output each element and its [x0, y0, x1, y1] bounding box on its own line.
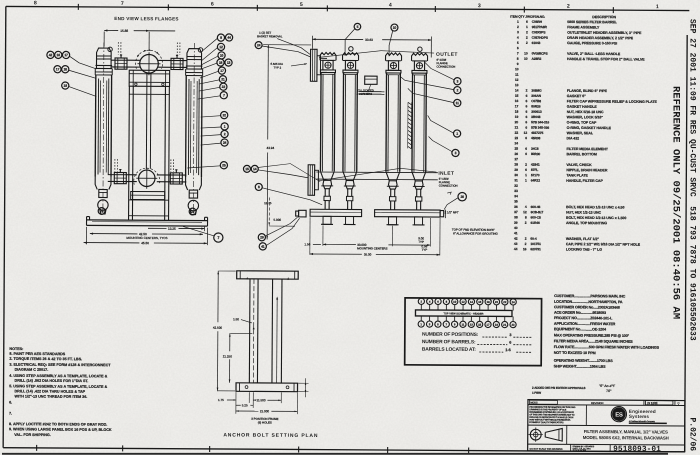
- svg-text:TOP VIEW SCHEMATIC - HEADER: TOP VIEW SCHEMATIC - HEADER: [443, 312, 483, 315]
- dim 30.000 MOUNTING CENTERS: [323, 243, 356, 245]
- side barrel 384.0 drain stem: [390, 189, 392, 197]
- svg-text:TYP: TYP: [418, 240, 424, 244]
- svg-text:CONNECTION: CONNECTION: [436, 65, 455, 69]
- svg-text:3: 3: [478, 3, 481, 9]
- svg-text:SHIP WEIGHT...............1564: SHIP WEIGHT...............1564 LBS: [554, 364, 606, 368]
- svg-text:7: 7: [517, 51, 519, 55]
- svg-text:30: 30: [514, 173, 518, 177]
- svg-text:23: 23: [515, 136, 519, 140]
- svg-text:8: 8: [525, 215, 527, 219]
- barrel x=193.2 flange neck: [186, 71, 203, 73]
- svg-text:NUMBER OF BARRELS:: NUMBER OF BARRELS:: [422, 339, 476, 345]
- drain header right bar: [375, 210, 441, 217]
- barrel x=102.8 flange neck: [95, 71, 112, 73]
- svg-text:17: 17: [56, 67, 60, 71]
- svg-text:4: 4: [525, 205, 527, 209]
- frame columns: [128, 86, 131, 220]
- side barrel 384.0 valve body: [388, 61, 398, 71]
- svg-text:10: 10: [393, 26, 397, 30]
- drain header left bar: [310, 209, 362, 216]
- sheet border frame: [6, 6, 689, 10]
- corner bracket item: [365, 76, 377, 84]
- svg-text:MOUNTING CENTERS: MOUNTING CENTERS: [357, 246, 387, 250]
- svg-text:6: 6: [211, 1, 214, 7]
- side barrel 341.0 valve body: [345, 60, 355, 70]
- svg-text:ANGLE, TOP MOUNTING: ANGLE, TOP MOUNTING: [566, 221, 607, 225]
- small mark near balloon 26: [447, 192, 451, 195]
- svg-text:HANDLE & TRAVEL STOP FOR 2" BA: HANDLE & TRAVEL STOP FOR 2" BALL VALVE: [567, 57, 645, 61]
- leader 41 to stub: [266, 218, 299, 246]
- side barrel 341.0 shell: [342, 73, 345, 172]
- leader 2.5 NPT: [443, 212, 445, 214]
- svg-text:7.: 7.: [9, 412, 12, 416]
- svg-text:20: 20: [515, 120, 519, 124]
- svg-text:19: 19: [515, 115, 519, 119]
- svg-text:4927275: 4927275: [531, 131, 543, 135]
- svg-text:2: 2: [526, 89, 528, 93]
- svg-text:BARRELS LOCATED AT:: BARRELS LOCATED AT:: [422, 347, 476, 353]
- balloon 3 inlet: [452, 149, 459, 156]
- svg-text:60-4: 60-4: [530, 237, 536, 241]
- svg-text:25: 25: [222, 163, 226, 167]
- svg-text:2 ADDED 345 PSI EDITION APPR: 2 ADDED 345 PSI EDITION APPROVALS: [532, 386, 586, 390]
- svg-text:NOT TO EXCEED 10 PPM: NOT TO EXCEED 10 PPM: [554, 351, 596, 355]
- svg-text:620731: 620731: [530, 247, 541, 251]
- svg-text:LOCKING TAB - 7" LG: LOCKING TAB - 7" LG: [566, 247, 602, 251]
- side barrel 318.5 valve body: [323, 60, 333, 70]
- svg-text:3. ELECTRICAL REQ: SEE FORM #: 3. ELECTRICAL REQ: SEE FORM #128 & INTER…: [9, 363, 111, 368]
- leader balloon 10: [389, 31, 393, 57]
- svg-text:6: 6: [526, 99, 528, 103]
- svg-text:17: 17: [486, 323, 490, 327]
- svg-text:4: 4: [517, 36, 519, 40]
- company logo ES circle: [612, 407, 626, 421]
- svg-text:300613: 300613: [531, 110, 542, 114]
- dim 21.250 vertical: [229, 333, 231, 351]
- svg-text:6: 6: [525, 136, 527, 140]
- side barrel 384.0 bottom valve: [388, 181, 397, 189]
- projection symbol cell: [566, 425, 568, 444]
- svg-text:CUSTOMER..................PARS: CUSTOMER..................PARSONS MAIN, …: [554, 294, 626, 298]
- barrel front at x=102.8 cap: [96, 48, 111, 68]
- side barrel 384.0 cap profile: [386, 53, 402, 61]
- svg-text:16: 16: [515, 99, 519, 103]
- dimension 42.50 MOUNTING CENTERS: [90, 233, 138, 235]
- svg-text:24: 24: [512, 300, 516, 304]
- svg-text:OPERATING WEIGHT.........1700: OPERATING WEIGHT.........1700 LBS: [554, 359, 614, 363]
- svg-text:CAP, PIPE 2 1/2" W/1 9/16 DIA: CAP, PIPE 2 1/2" W/1 9/16 DIA 1/2" NPT H…: [566, 242, 641, 246]
- balloon 26 drain: [458, 192, 466, 200]
- svg-text:12: 12: [524, 131, 528, 135]
- svg-text:1.50: 1.50: [233, 317, 239, 321]
- svg-text:16: 16: [478, 300, 482, 304]
- balloon 7 right col: [220, 92, 227, 99]
- svg-text:FILTER MEDIA AREA.......2148 S: FILTER MEDIA AREA.......2148 SQUARE INCH…: [554, 339, 634, 343]
- svg-text:GASKET HANDLE: GASKET HANDLE: [567, 105, 598, 109]
- right small dim 1.50 bar height: [298, 382, 308, 384]
- svg-text:FORMERLY QUALITY FABRICATORS: FORMERLY QUALITY FABRICATORS: [529, 421, 564, 424]
- balloon 24 upper left: [255, 42, 262, 49]
- leader balloon 3 outlet: [425, 62, 454, 79]
- svg-text:GASKET 6": GASKET 6": [567, 94, 586, 98]
- projection symbol cone: [545, 428, 562, 441]
- svg-text:NUT, HEX 5/16-18 UNC: NUT, HEX 5/16-18 UNC: [567, 110, 604, 114]
- balloon 42 16 17 triple: [47, 51, 54, 58]
- svg-text:0V08RCPS: 0V08RCPS: [532, 52, 549, 56]
- side barrel 318.5 shell: [319, 73, 322, 172]
- svg-text:87FL: 87FL: [531, 168, 538, 172]
- svg-text:C08RH: C08RH: [532, 20, 543, 24]
- svg-text:2: 2: [525, 242, 527, 246]
- bottom row cells: [570, 444, 572, 451]
- svg-text:TYP: TYP: [421, 248, 427, 252]
- svg-text:Systems: Systems: [629, 414, 650, 419]
- balloon 18 right col: [217, 59, 224, 66]
- svg-text:14: 14: [470, 300, 474, 304]
- svg-text:DIA 432: DIA 432: [567, 136, 580, 140]
- balloon 22 right col: [221, 112, 228, 119]
- side barrel 410.0 cap profile: [412, 53, 428, 61]
- balloon 13 right col: [225, 59, 232, 66]
- svg-text:9. WHEN USING LARGE PANEL BOX: 9. WHEN USING LARGE PANEL BOX 16 POS & U…: [9, 427, 112, 432]
- svg-text:11: 11: [515, 73, 519, 77]
- svg-text:6" ALLOWANCE FOR GROUTING: 6" ALLOWANCE FOR GROUTING: [453, 231, 498, 235]
- svg-text:42: 42: [49, 53, 53, 57]
- frame top plate: [129, 70, 169, 86]
- top header dashed bolt circle: [135, 50, 162, 69]
- leaders from right balloon column: [202, 38, 217, 51]
- side barrel 384.0 valve circle: [390, 62, 396, 68]
- svg-text:1: 1: [517, 20, 519, 24]
- svg-text:EQUIPMENT No.............OE-12: EQUIPMENT No.............OE-1204: [554, 327, 607, 331]
- balloon 41 bottom left: [259, 243, 266, 250]
- svg-text:23: 23: [511, 323, 515, 327]
- schematic top circles: [418, 298, 424, 304]
- svg-text:2: 2: [526, 36, 528, 40]
- svg-text:61R46: 61R46: [531, 221, 541, 225]
- svg-text:24: 24: [515, 141, 519, 145]
- inlet leader line: [318, 168, 436, 182]
- side view top dimension line 30.63: [312, 38, 363, 40]
- svg-text:2. TORQUE ITEMS 26 & 42 TO 35: 2. TORQUE ITEMS 26 & 42 TO 35 FT. LBS.: [9, 357, 82, 361]
- side barrel 410.0 shell: [411, 73, 414, 172]
- svg-text:30.63: 30.63: [365, 38, 373, 42]
- svg-text:8. PAINT PER AES STANDARDS: 8. PAINT PER AES STANDARDS: [9, 352, 65, 356]
- top pipe left: [111, 59, 140, 61]
- side barrel 410.0 bottom valve: [414, 181, 423, 189]
- svg-text:6: 6: [525, 110, 527, 114]
- svg-text:20: 20: [495, 300, 499, 304]
- svg-text:2: 2: [525, 163, 527, 167]
- svg-text:ACE ORDER No.............95180: ACE ORDER No.............9518093: [554, 311, 606, 315]
- svg-text:45R08: 45R08: [531, 136, 541, 140]
- balloon 29 right foot: [189, 208, 196, 215]
- svg-text:NUMBER OF POSITIONS:: NUMBER OF POSITIONS:: [422, 332, 479, 338]
- svg-text:TANK PLATE: TANK PLATE: [566, 173, 588, 177]
- svg-text:VALVE, 2" BALL -LESS HANDLE: VALVE, 2" BALL -LESS HANDLE: [567, 52, 621, 56]
- balloon 8 lower left: [255, 183, 262, 190]
- anchor plan bottom bar holes: [245, 386, 248, 389]
- svg-text:24: 24: [223, 141, 227, 145]
- svg-text:12: 12: [515, 78, 519, 82]
- dimension 13.25: [148, 227, 166, 229]
- svg-text:MODEL 5800S 6X2, INTERNAL BACK: MODEL 5800S 6X2, INTERNAL BACKWASH: [583, 435, 669, 441]
- balloon 10 top: [391, 24, 398, 31]
- leader balloon 8: [262, 188, 322, 205]
- svg-text:6CB-8LT: 6CB-8LT: [531, 210, 544, 214]
- overall height dim 43.94: [267, 44, 270, 139]
- svg-text:10: 10: [220, 54, 224, 58]
- svg-text:CUSTOMER ORDER No.....2002A103: CUSTOMER ORDER No.....2002A103448: [554, 305, 620, 309]
- svg-text:11: 11: [461, 322, 464, 326]
- anchor plan left rail centerline: [252, 279, 255, 383]
- svg-text:11: 11: [456, 101, 460, 105]
- svg-text:13: 13: [227, 61, 231, 65]
- svg-text:29: 29: [260, 235, 264, 239]
- svg-text:31: 31: [514, 178, 518, 182]
- ball valve front (176,65): [171, 58, 183, 69]
- side barrel 341.0 drain stem: [347, 189, 349, 197]
- svg-text:BARREL BOTTOM: BARREL BOTTOM: [566, 152, 596, 156]
- anchor plan right rail: [271, 279, 274, 383]
- outlet leader line: [319, 50, 434, 58]
- svg-text:ITEM QTY JWC/FSN.NO.: ITEM QTY JWC/FSN.NO.: [510, 15, 545, 19]
- svg-text:DRILL (14) .562 DIA HOLES FOR: DRILL (14) .562 DIA HOLES FOR 1"DIA ST.: [15, 379, 89, 383]
- anchor plan top bar arrows: [246, 277, 248, 280]
- leader balloon 5: [345, 29, 355, 56]
- balloon 22 right col: [220, 83, 227, 90]
- svg-text:ANCHOR BOLT SETTING PLAN: ANCHOR BOLT SETTING PLAN: [223, 432, 318, 439]
- svg-text:FLANGE, BLIND 6" PIPE: FLANGE, BLIND 6" PIPE: [567, 89, 608, 93]
- leader balloon 24 to flange: [262, 46, 310, 57]
- barrel x=102.8 foot stem: [99, 189, 107, 197]
- svg-text:22: 22: [222, 85, 226, 89]
- svg-text:44: 44: [227, 36, 231, 40]
- svg-text:24: 24: [257, 43, 261, 47]
- svg-text:1: 1: [656, 4, 659, 10]
- inlet header pipe lines: [316, 171, 437, 174]
- balloon 12 right col: [217, 43, 224, 50]
- leader balloon 26: [444, 198, 458, 210]
- svg-text:10: 10: [524, 52, 528, 56]
- svg-text:3: 3: [517, 30, 519, 34]
- svg-text:27: 27: [514, 157, 518, 161]
- svg-text:41: 41: [261, 245, 265, 249]
- svg-text:16: 16: [523, 247, 527, 251]
- tie bar between barrel2 and barrel3: [359, 91, 384, 93]
- svg-text:12: 12: [219, 45, 223, 49]
- svg-text:21.250: 21.250: [223, 354, 233, 358]
- balloon 25 right col: [220, 162, 227, 169]
- svg-text:18: 18: [64, 84, 68, 88]
- svg-text:15: 15: [515, 94, 519, 98]
- svg-text:15.88: 15.88: [120, 29, 128, 33]
- svg-text:600-46: 600-46: [531, 205, 541, 209]
- svg-text:40: 40: [514, 226, 518, 230]
- title block lower divider: [528, 443, 685, 446]
- svg-text:6: 6: [525, 126, 527, 130]
- svg-text:5. USING STEP ASSEMBLY AS A TE: 5. USING STEP ASSEMBLY AS A TEMPLATE, LO…: [9, 384, 107, 389]
- drain pipe stub left with cap: [299, 210, 307, 217]
- svg-text:35.00: 35.00: [364, 252, 372, 256]
- svg-text:1: 1: [525, 173, 527, 177]
- svg-text:SEP 27 2001 11:09 FR RES QU-CU: SEP 27 2001 11:09 FR RES QU-CUST SRVC 51…: [688, 19, 697, 451]
- frame lower cross line: [129, 199, 169, 201]
- svg-text:BOLT, HEX HEAD 1/2-13 UNC x 1.: BOLT, HEX HEAD 1/2-13 UNC x 1.500: [566, 216, 626, 220]
- svg-text:26: 26: [514, 152, 518, 156]
- svg-text:6.: 6.: [9, 401, 12, 405]
- svg-text:GAUGE, PRESSURE 0-160 PSI: GAUGE, PRESSURE 0-160 PSI: [567, 41, 617, 45]
- leader 29 to stub: [265, 217, 297, 236]
- svg-text:5: 5: [300, 2, 303, 8]
- leader 15-14 to inlet flange: [258, 170, 308, 178]
- svg-text:O-RING, GASKET HANDLE: O-RING, GASKET HANDLE: [567, 126, 612, 130]
- bottom header circle: [139, 170, 155, 186]
- svg-text:9: 9: [517, 62, 519, 66]
- svg-text:DESCRIPTION: DESCRIPTION: [592, 15, 616, 19]
- balloon 18 single left: [62, 82, 69, 89]
- svg-text:6: 6: [525, 168, 527, 172]
- svg-text:18: 18: [219, 61, 223, 65]
- svg-text:101751: 101751: [530, 242, 541, 246]
- svg-text:SCALE: NONE: SCALE: NONE: [573, 449, 587, 452]
- schematic box: [405, 298, 542, 366]
- svg-text:17: 17: [220, 69, 224, 73]
- svg-text:4 CORNERS: 4 CORNERS: [356, 92, 372, 96]
- balloon 8 right col: [217, 34, 224, 41]
- svg-text:57170: 57170: [531, 173, 540, 177]
- barrel x=193.2 foot stem: [189, 190, 197, 198]
- svg-text:42.500: 42.500: [213, 326, 223, 330]
- svg-text:26: 26: [460, 195, 464, 199]
- side barrel 318.5 bottom cone: [320, 171, 334, 180]
- svg-text:19: 19: [495, 323, 499, 327]
- svg-text:38: 38: [514, 215, 518, 219]
- balloon 1 side: [453, 130, 460, 137]
- svg-text:57B 344-316: 57B 344-316: [531, 120, 549, 124]
- svg-text:C057HDPS: C057HDPS: [532, 36, 549, 40]
- inlet flange side view: [308, 165, 315, 196]
- balloon 7 base: [214, 233, 223, 242]
- svg-text:FILTER ASSEMBLY, MANUAL 1/2" V: FILTER ASSEMBLY, MANUAL 1/2" VALVES: [584, 429, 668, 435]
- anchor plan top bar: [237, 271, 299, 279]
- svg-text:14: 14: [253, 167, 257, 171]
- svg-text:57B 345-036: 57B 345-036: [531, 126, 549, 130]
- svg-text:22: 22: [222, 113, 226, 117]
- bottom pipe right: [157, 174, 186, 176]
- svg-text:21: 21: [503, 323, 507, 327]
- svg-text:29: 29: [191, 210, 195, 214]
- svg-text:6: 6: [509, 341, 511, 345]
- svg-text:35: 35: [514, 200, 518, 204]
- svg-text:2: 2: [525, 237, 527, 241]
- title block header right cells: [643, 400, 645, 405]
- bottom paper edge line: [2, 453, 668, 455]
- svg-text:FRAME ASSEMBLY: FRAME ASSEMBLY: [567, 25, 600, 29]
- svg-text:1.75: 1.75: [218, 398, 224, 402]
- svg-text:10: 10: [515, 67, 519, 71]
- zone ticks top: [77, 4, 79, 10]
- balloon 15 14 pair: [243, 165, 250, 172]
- svg-text:17: 17: [64, 53, 68, 57]
- side barrel 384.0 bottom cone: [386, 172, 400, 181]
- side barrel 341.0 top flange: [343, 70, 358, 73]
- svg-text:2: 2: [517, 25, 519, 29]
- svg-text:5.25: 5.25: [242, 403, 248, 407]
- drain cap right 2.5 NPT: [440, 211, 444, 217]
- svg-text:12: 12: [523, 210, 527, 214]
- balloon 3 outlet: [454, 78, 461, 85]
- dim 35.00 overall: [310, 253, 362, 255]
- leader from 18: [69, 87, 97, 97]
- anchor plan left rail: [248, 279, 251, 383]
- flow arrows on bolt circle: [137, 54, 139, 56]
- svg-text:80R26: 80R26: [531, 104, 541, 108]
- svg-text:13: 13: [515, 83, 519, 87]
- svg-text:18: 18: [515, 110, 519, 114]
- balloon 44 right col: [225, 34, 232, 41]
- svg-text:4: 4: [389, 3, 392, 9]
- svg-text:BOLT, HEX HEAD 1/2-13 UNC x 4.: BOLT, HEX HEAD 1/2-13 UNC x 4.50: [566, 205, 624, 209]
- svg-text:(2) LOCATED: (2) LOCATED: [357, 88, 374, 92]
- svg-text:33: 33: [514, 189, 518, 193]
- svg-text:42: 42: [514, 237, 518, 241]
- svg-text:1 PBW: 1 PBW: [532, 391, 541, 395]
- svg-text:308MG: 308MG: [531, 89, 542, 93]
- svg-text:10: 10: [524, 57, 528, 61]
- leader balloon 2: [400, 76, 454, 89]
- svg-text:END VIEW LESS FLANGES: END VIEW LESS FLANGES: [114, 16, 178, 21]
- title block header row: [528, 404, 685, 407]
- barrel x=102.8 centerline: [103, 42, 104, 214]
- svg-text:41: 41: [514, 231, 518, 235]
- balloon 17 right col: [218, 67, 225, 74]
- barrel x=102.8 foot ball: [98, 200, 108, 210]
- svg-text:7: 7: [217, 236, 219, 240]
- ball valve front (120,179.5): [114, 172, 126, 183]
- side barrel 410.0 bottom cone: [412, 172, 426, 181]
- side barrel 341.0 bottom cone: [343, 171, 357, 180]
- anchor plan right rail arrow line: [276, 298, 279, 383]
- leader from 42-16-17: [70, 56, 97, 69]
- svg-text:29: 29: [514, 168, 518, 172]
- svg-text:FLOW RATE................500 G: FLOW RATE................500 GPM FRESH W…: [554, 345, 660, 350]
- leader balloon 11: [408, 88, 454, 102]
- svg-text:2: 2: [526, 41, 528, 45]
- balloon 21 right col: [219, 76, 226, 83]
- svg-text:MAX OPERATING PRESSURE.285 PSI: MAX OPERATING PRESSURE.285 PSI @ 100°: [554, 333, 630, 337]
- svg-text:TYP 2: TYP 2: [273, 66, 281, 70]
- frame cross line: [129, 93, 169, 95]
- bottom pipe left: [108, 174, 137, 176]
- balloon 2 side: [454, 87, 461, 94]
- leader balloon 1: [428, 115, 454, 133]
- svg-text:22: 22: [503, 300, 507, 304]
- anchor plan bottom bar: [236, 383, 298, 392]
- barrel x=193.2 foot ball: [188, 200, 198, 210]
- anchor bottom dims: [235, 392, 237, 414]
- svg-text:43.94: 43.94: [266, 146, 274, 150]
- balloon 29 left foot: [98, 208, 105, 215]
- svg-text:11.500: 11.500: [257, 398, 266, 402]
- svg-text:T6°: T6°: [606, 389, 612, 393]
- side barrel 384.0 shell: [385, 73, 388, 172]
- svg-text:CONNECTION: CONNECTION: [439, 184, 458, 188]
- barrel front at x=193.2 cap: [187, 49, 202, 69]
- svg-text:5.000: 5.000: [274, 218, 282, 222]
- svg-text:6: 6: [525, 147, 527, 151]
- balloon 29 bottom left: [258, 234, 265, 241]
